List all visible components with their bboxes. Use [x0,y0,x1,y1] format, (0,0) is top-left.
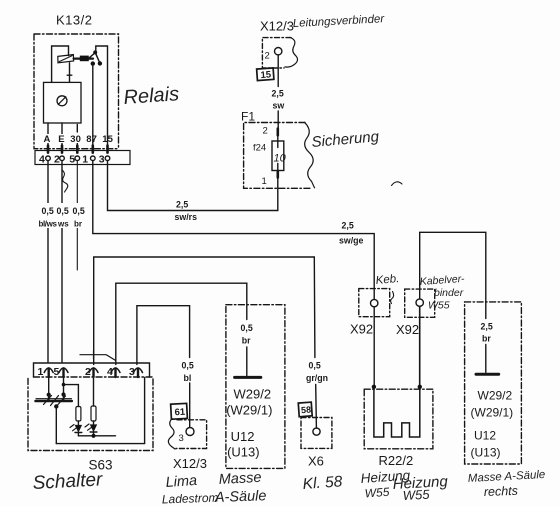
wire fuse to run A [277,178,279,211]
svg-text:sw/rs: sw/rs [175,212,198,222]
wire run A: relay 15 to fuse, 2.5 sw/rs [108,161,278,211]
S63 label [89,458,113,473]
svg-text:ws: ws [57,220,69,229]
svg-text:(U13): (U13) [227,445,260,460]
svg-text:f24: f24 [253,143,266,154]
wire X12/3 to fuse, 2.5 sw [277,55,279,129]
wire X92 right to heater [419,306,421,385]
svg-text:3: 3 [129,366,135,378]
svg-text:U12: U12 [231,429,255,444]
fuse box wavy right edge [305,122,315,188]
svg-text:87: 87 [86,134,97,145]
wire 0.5 br stub [76,161,78,270]
svg-text:3: 3 [179,433,184,444]
LED B [85,424,97,436]
wire coil to pin 2 [61,123,63,146]
svg-text:bl: bl [184,373,192,383]
svg-text:30: 30 [70,134,81,145]
switch S63 dashed enclosure [28,379,153,451]
svg-text:Lima: Lima [165,473,197,491]
relay internal top bracket wire [52,46,69,82]
ground box W29/2 rechts dashed [465,302,522,464]
fuse box F1 label [241,110,255,124]
fuse f24 label [253,143,266,154]
connector X12/3 Lima socket [186,428,194,436]
relay connector strip [35,151,130,165]
svg-text:2: 2 [54,153,60,165]
ground W29/2 rechts [476,373,499,376]
relay K13/2 label [56,13,92,28]
wire top rail to pin 3 (15) [96,46,108,146]
connector X92 right dashed box [405,289,435,317]
svg-text:R22/2: R22/2 [379,453,414,468]
connector X12/3 top dashed box [262,38,291,68]
handwritten Schalter [32,469,103,494]
svg-text:(W29/1): (W29/1) [471,406,514,420]
connector X12/3 Lima: terminal box 61 [171,403,188,419]
connector X12/3 socket [275,48,282,55]
wire run E: S63 pin4 to center ground, 0.5 br [116,283,247,375]
svg-text:F1: F1 [241,110,255,124]
wire relay pin2 to S63 pin5 [61,161,63,363]
svg-text:2,5: 2,5 [176,200,188,210]
svg-text:W55: W55 [402,487,430,503]
fuse terminal tick 1 [276,171,279,177]
svg-text:(W29/1): (W29/1) [226,403,272,418]
svg-text:Relais: Relais [123,83,180,109]
branch pin5 to resistor A [64,385,79,407]
svg-text:X6: X6 [308,454,324,469]
resistor B [91,406,96,421]
svg-text:Masse: Masse [218,470,261,488]
relay terminal ticks [48,146,108,153]
svg-text:Keb.: Keb. [375,273,400,287]
svg-text:binder: binder [434,287,464,299]
svg-text:10: 10 [274,153,287,165]
svg-text:3: 3 [99,153,105,165]
svg-text:E: E [58,134,64,145]
wire run F: S63 pin3 to X12/3 Lima, 0.5 bl [137,306,190,427]
S63 contact dots [47,393,51,397]
wire terminal 30 stub [76,125,78,146]
handwritten Lima Ladestrom [162,473,219,506]
relay pin sockets 4 2 5 1 3 [46,156,110,161]
S63 pin 4 [111,368,120,377]
connector X6 dashed box [301,418,332,449]
LED A [70,425,82,436]
svg-text:15: 15 [260,69,272,81]
node 2 of X12/3 [265,51,270,62]
wavy left edge [168,419,175,450]
fuse terminal tick 2 [276,129,279,136]
linkage line above pins [80,355,115,361]
relay armature stem wire [67,63,72,83]
relay K13/2 dashed enclosure [34,34,119,149]
svg-text:Ladestrom: Ladestrom [162,491,219,506]
pen curl [391,292,394,304]
svg-text:br: br [482,334,491,344]
svg-text:W29/2: W29/2 [234,387,272,402]
svg-text:(U13): (U13) [471,446,501,460]
handwritten Relais [123,83,180,109]
svg-text:sw/ge: sw/ge [339,236,364,246]
svg-text:15: 15 [102,134,113,145]
relay coil U1 [44,82,82,123]
relay armature contact (switch) [58,50,102,65]
handwritten Keb. [375,273,400,287]
handwritten Heizung Heizung W55 W55 [360,468,449,503]
handwritten Masse A-Saeule rechts [468,469,546,499]
svg-text:0,5: 0,5 [182,361,194,371]
svg-text:2,5: 2,5 [342,221,354,231]
svg-text:bl/ws: bl/ws [39,220,58,229]
handwritten fuse value [274,153,287,165]
svg-text:W29/2: W29/2 [478,389,513,403]
svg-text:5: 5 [54,366,60,378]
connector X92 right socket [416,299,423,306]
ground W29/2 center [235,376,261,379]
handwritten Kl. 58 [302,473,343,493]
wire run D: S63 pin2 to X6, 0.5 gr/gn [94,257,317,428]
connector X12/3 top label [260,19,294,34]
svg-text:W55: W55 [428,300,450,312]
connector X92 left dashed box [359,289,390,317]
svg-text:0,5: 0,5 [73,206,85,216]
handwritten Sicherung [311,128,380,151]
node 3 [179,433,184,444]
svg-text:2: 2 [263,126,268,137]
svg-text:2,5: 2,5 [272,89,284,99]
common rail to pin 3 side [56,378,144,444]
svg-text:1: 1 [262,176,267,187]
S63 pin 3 [134,368,143,377]
svg-text:A: A [44,134,51,145]
svg-text:0,5: 0,5 [42,206,54,216]
svg-text:1: 1 [38,366,44,378]
svg-text:X12/3: X12/3 [260,19,294,34]
svg-text:br: br [242,336,251,346]
wire relay pin4 to S63 pin1 [47,161,49,363]
LED rail [78,435,115,437]
handwritten Leitungsverbinder [293,13,386,30]
svg-text:X92: X92 [396,322,419,337]
terminal box 15 [257,68,274,81]
wire run C: X92 to ground right, 2.5 br [420,232,486,372]
handwritten Kabelverbinder W55 [419,273,465,312]
switch S63 connector strip [34,363,150,377]
svg-text:0,5: 0,5 [309,361,321,371]
connector X12/3 Lima dashed box [176,420,207,449]
wire coil to pin 4 [47,123,49,146]
svg-text:A-Säule: A-Säule [214,488,267,506]
svg-text:61: 61 [174,407,186,419]
svg-text:0,5: 0,5 [57,206,69,216]
resistor A [76,407,81,422]
wire pin2 to resistor B [93,377,95,406]
svg-text:4: 4 [107,366,113,378]
svg-text:gr/gn: gr/gn [306,373,328,383]
svg-text:5: 5 [69,153,75,165]
svg-text:rechts: rechts [484,484,519,499]
handwritten Masse A-Saeule [214,470,267,506]
wire contact to pin 1 (87) [92,64,94,146]
heater element R22/2 [374,387,420,437]
svg-text:2,5: 2,5 [481,322,493,332]
S63 pin 2 [89,368,98,377]
wire run B: relay 87 to X92, 2.5 sw/ge [93,161,374,300]
handwritten scribble below relay [62,170,68,192]
wire labels 0,5 bl/ws / 0,5 ws / 0,5 br [39,203,85,229]
heater pin junctions [372,385,376,389]
S63 pin 1 [44,368,53,377]
heater R22/2 dashed box [364,389,433,449]
svg-text:br: br [74,220,82,229]
svg-text:Kl. 58: Kl. 58 [302,473,343,493]
S63 pin 5 [59,368,68,377]
S63 wiper junction [54,404,58,408]
svg-text:58: 58 [301,405,312,416]
svg-text:X92: X92 [350,322,373,337]
wire wiper to common rail [55,406,57,443]
svg-text:sw: sw [273,101,285,111]
connector X6 socket [313,428,320,435]
connector X92 left socket [371,299,378,306]
svg-text:4: 4 [39,153,45,165]
svg-text:0,5: 0,5 [241,323,253,333]
wire X92 left to heater [373,307,375,385]
svg-text:2: 2 [85,366,91,378]
S63 switch bar [36,398,72,400]
svg-text:K13/2: K13/2 [56,13,92,28]
svg-text:2: 2 [265,51,270,62]
svg-text:Schalter: Schalter [32,469,103,494]
svg-text:W55: W55 [364,485,390,501]
fuse box F1 dashed enclosure [244,123,311,189]
S63 switch contact wires [49,377,64,393]
svg-text:1: 1 [82,153,88,165]
connector X6: terminal box 58 [298,402,312,417]
stray pen arc [392,182,403,186]
S63 switch hatches [44,396,66,406]
relay terminal labels A E 30 87 15 [42,134,114,145]
svg-text:X12/3: X12/3 [173,456,207,471]
ground box W29/2 center dashed [226,305,285,469]
connector X12/3 wavy edge [285,37,298,67]
S63 pin numbers [38,366,136,378]
svg-text:U12: U12 [474,429,496,443]
fuse F24 body [272,141,284,171]
